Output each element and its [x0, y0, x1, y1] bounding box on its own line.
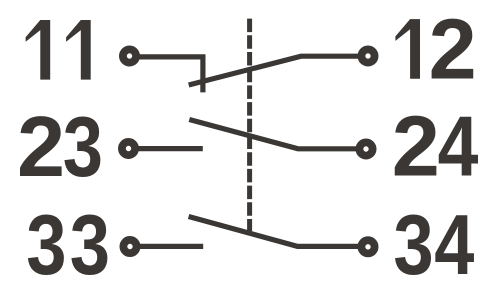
svg-text:4: 4	[438, 98, 479, 193]
svg-text:2: 2	[17, 100, 65, 195]
svg-text:3: 3	[70, 198, 110, 293]
svg-text:3: 3	[26, 198, 66, 293]
svg-text:3: 3	[393, 198, 433, 293]
svg-text:2: 2	[429, 2, 477, 97]
svg-text:2: 2	[392, 99, 440, 194]
svg-text:4: 4	[434, 198, 474, 293]
svg-text:3: 3	[63, 100, 103, 195]
